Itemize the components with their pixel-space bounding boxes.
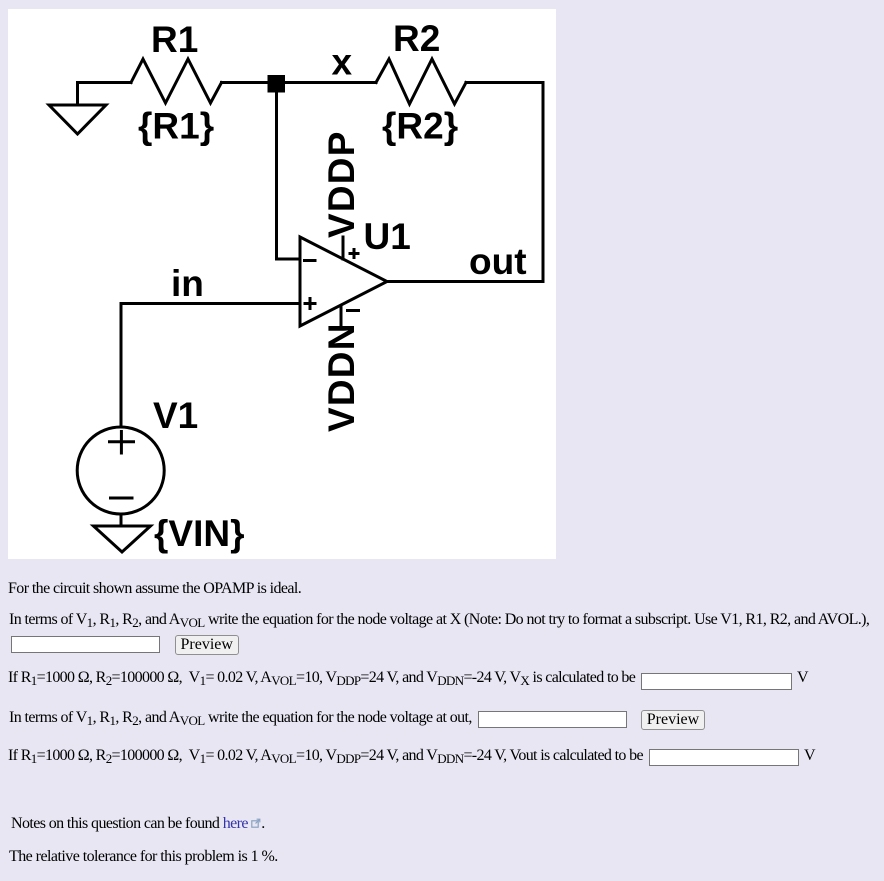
svg-text:{R1}: {R1} — [138, 106, 214, 147]
wire in node to non-inverting input — [121, 302, 300, 305]
svg-text:VDDP: VDDP — [321, 130, 362, 238]
minus marker VDDN pin — [346, 309, 360, 312]
resistor R1 — [131, 59, 222, 103]
wire in node down to V1 — [120, 304, 123, 427]
svg-text:U1: U1 — [364, 216, 411, 257]
svg-text:V1: V1 — [153, 395, 198, 436]
resistor R2 — [376, 59, 466, 104]
circuit schematic white canvas — [8, 9, 556, 559]
minus marker in V1 — [109, 497, 134, 500]
wire V1 bottom to ground — [120, 515, 123, 526]
wire R1 to node X junction — [222, 81, 269, 84]
wire ground to R1 — [78, 83, 132, 104]
op-amp U1 triangle — [300, 237, 387, 326]
op-amp VDDN supply pin — [340, 307, 343, 329]
svg-text:R2: R2 — [393, 18, 440, 59]
svg-text:VDDN: VDDN — [321, 322, 362, 432]
svg-text:x: x — [332, 42, 353, 83]
svg-text:{R2}: {R2} — [382, 106, 458, 147]
svg-text:out: out — [469, 241, 527, 282]
op-amp VDDP supply pin — [342, 237, 345, 259]
svg-text:in: in — [171, 263, 204, 304]
ground (below V1) — [94, 526, 151, 552]
wire right feedback rail (out to R2) — [542, 83, 545, 282]
svg-text:R1: R1 — [151, 19, 198, 60]
plus marker VDDP pin — [349, 252, 360, 255]
wire R2 to right rail — [466, 81, 543, 84]
ground (left, at R1 input) — [49, 105, 106, 134]
wire op-amp output to rail — [387, 280, 543, 283]
V1 source circle — [77, 427, 164, 514]
wire node X down to inverting input — [277, 91, 301, 259]
minus marker inverting input — [303, 259, 317, 262]
plus marker in V1 — [108, 440, 135, 443]
node X junction square — [268, 75, 286, 93]
svg-text:{VIN}: {VIN} — [154, 513, 244, 554]
plus marker non-inverting input — [304, 302, 317, 305]
question text — [8, 579, 301, 598]
wire junction to R2 — [285, 81, 376, 84]
